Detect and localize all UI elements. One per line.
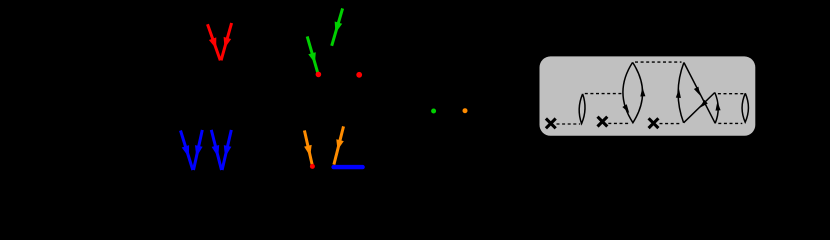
big bubble (lens 2) bbox=[623, 62, 643, 122]
left arc up arrow bbox=[676, 89, 681, 98]
green legend dot bbox=[431, 109, 436, 114]
red dot 2 bbox=[356, 72, 362, 78]
gray rounded panel bbox=[540, 56, 756, 135]
dashed line x2 to bubble2 bbox=[608, 122, 630, 124]
red dot 3 bbox=[310, 164, 315, 169]
line T to B (crossing line 1) bbox=[684, 63, 715, 124]
cross x1 bbox=[546, 119, 556, 129]
dashed line x1 to lens1 bbox=[557, 123, 581, 125]
orange arrow 2 (to blue bar) bbox=[334, 126, 344, 164]
red V arrow, left stroke bbox=[208, 24, 221, 60]
right arc B to D bbox=[715, 93, 718, 124]
blue V arrow 2, right stroke bbox=[222, 130, 231, 170]
orange arrow 1 (to red dot) bbox=[304, 130, 312, 165]
dashed line x3 to A bbox=[660, 123, 682, 125]
B-D arc up arrow bbox=[716, 101, 721, 110]
left arc A to T bbox=[678, 63, 684, 123]
dashed line lens1 top to bubble2 bbox=[585, 93, 623, 95]
orange legend dot bbox=[463, 108, 468, 113]
small lens (bubble 1) bbox=[579, 94, 585, 124]
green arrow 1 (to red dot) bbox=[307, 36, 318, 73]
T-B mid arrow (down-right) bbox=[694, 87, 700, 96]
blue V arrow 1, right stroke bbox=[194, 130, 203, 170]
dashed line B to lens3 bottom bbox=[718, 122, 742, 124]
blue flat bar bbox=[334, 165, 363, 169]
cross x2 bbox=[598, 117, 608, 127]
red V arrow, right stroke bbox=[221, 23, 232, 60]
bubble2 right-arc arrow (up) bbox=[640, 87, 645, 96]
dashed line D to lens3 top bbox=[718, 93, 743, 95]
bubble2 left-arc arrow (down) bbox=[622, 104, 629, 113]
D-A mid arrow (down-left) bbox=[700, 100, 708, 108]
blue V arrow 2, left stroke bbox=[211, 130, 221, 170]
cross x3 bbox=[649, 118, 659, 128]
small lens (bubble 3) bbox=[742, 93, 748, 122]
red dot 1 bbox=[316, 72, 322, 78]
dashed line bubble2 top to T bbox=[635, 61, 682, 63]
blue V arrow 1, left stroke bbox=[181, 131, 193, 171]
green arrow 2 bbox=[332, 8, 343, 45]
line D to A (crossing line 2) bbox=[684, 93, 715, 123]
